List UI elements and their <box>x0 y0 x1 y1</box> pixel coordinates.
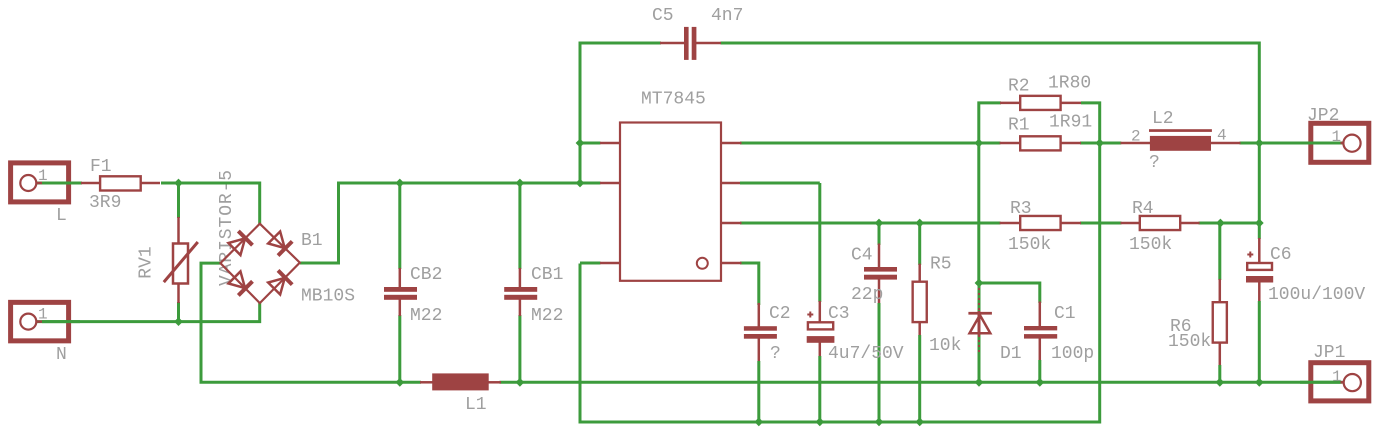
junction C1 bottom <box>1035 378 1044 387</box>
capacitor CB1 <box>504 265 563 326</box>
wire rectified bus y183 <box>300 183 601 263</box>
svg-text:D1: D1 <box>1000 344 1022 364</box>
capacitor C1 <box>1024 304 1094 364</box>
junction CB2 top <box>395 179 404 188</box>
svg-text:F1: F1 <box>90 157 112 177</box>
wire IC pin2 right to C3 <box>740 182 820 185</box>
svg-text:2: 2 <box>1131 128 1141 146</box>
svg-text:100u/100V: 100u/100V <box>1268 285 1365 305</box>
wire L input bus y183 <box>37 183 260 224</box>
junction C2 gnd <box>754 418 763 427</box>
resistor R4 <box>1121 199 1200 255</box>
capacitor C2 <box>744 304 791 364</box>
svg-text:1R80: 1R80 <box>1048 74 1091 94</box>
svg-text:MT7845: MT7845 <box>641 90 706 110</box>
junction RV1-N node <box>174 317 183 326</box>
junction IC pin1 node <box>576 139 585 148</box>
svg-text:C3: C3 <box>828 304 850 324</box>
svg-text:CB2: CB2 <box>410 265 442 285</box>
junction R4-C6 node <box>1255 219 1264 228</box>
svg-text:R1: R1 <box>1008 116 1030 136</box>
wire IC pin rows left stubs <box>580 143 601 263</box>
resistor R3 <box>1000 199 1081 255</box>
wire C1 vertical <box>1039 302 1042 383</box>
fuse F1 <box>81 157 160 213</box>
svg-text:MB10S: MB10S <box>301 287 355 307</box>
svg-text:?: ? <box>770 344 781 364</box>
resistor R5 <box>913 255 962 357</box>
junction IC pin2 node <box>576 179 585 188</box>
svg-text:C6: C6 <box>1270 245 1292 265</box>
svg-text:4n7: 4n7 <box>711 6 743 26</box>
inductor L1 <box>420 373 501 415</box>
svg-text:150k: 150k <box>1168 332 1211 352</box>
svg-text:22p: 22p <box>851 285 883 305</box>
wire D1 vertical <box>978 283 981 382</box>
varistor RV1 <box>137 242 198 284</box>
junction C4 gnd <box>875 418 884 427</box>
wire top bus C5 net <box>580 43 1259 185</box>
resistor R6 <box>1168 302 1227 352</box>
wire IC pin4 right to C2 <box>740 263 759 305</box>
svg-text:150k: 150k <box>1129 235 1172 255</box>
junction R1-L2 node <box>1095 139 1104 148</box>
wire RV1 leads <box>177 183 180 322</box>
capacitor CB2 <box>384 265 442 326</box>
junction C6 bottom <box>1255 378 1264 387</box>
junction CB1 bottom <box>516 378 525 387</box>
junction R2-R1 left <box>974 139 983 148</box>
svg-text:C1: C1 <box>1054 304 1076 324</box>
junction D1 top <box>975 279 984 288</box>
svg-text:C4: C4 <box>851 246 873 266</box>
svg-text:JP2: JP2 <box>1307 106 1339 126</box>
wire overlays over connector borders <box>42 143 1341 382</box>
capacitor C3 <box>807 304 904 364</box>
junction R6 bottom <box>1215 378 1224 387</box>
diode D1 <box>968 311 1021 364</box>
wire C6 vertical <box>1258 143 1261 382</box>
wire R6 vertical <box>1218 223 1221 382</box>
junction D1 bottom <box>975 378 984 387</box>
svg-text:3R9: 3R9 <box>89 193 121 213</box>
wire IC ground bus y422 <box>580 103 1100 422</box>
wire C2 vertical <box>758 303 761 422</box>
IC U1 MT7845 <box>600 90 742 281</box>
svg-text:10k: 10k <box>929 336 961 356</box>
svg-text:4u7/50V: 4u7/50V <box>828 344 904 364</box>
inductor L2 <box>1121 109 1241 173</box>
junction F1-RV1 node <box>174 179 183 188</box>
svg-text:L2: L2 <box>1152 109 1174 129</box>
svg-text:R4: R4 <box>1132 199 1154 219</box>
svg-text:R3: R3 <box>1010 199 1032 219</box>
junction C4 top <box>875 219 884 228</box>
connector L <box>11 163 69 226</box>
wire R5 vertical <box>918 223 921 422</box>
connector JP1 <box>1311 343 1369 401</box>
wire output row y143 <box>740 142 1343 145</box>
connector JP2 <box>1307 106 1369 162</box>
wire feedback bus y223 <box>740 222 1259 225</box>
wire R2 left elbow <box>979 103 1001 283</box>
wire C4 vertical <box>878 223 881 422</box>
junction R5 top <box>915 219 924 228</box>
svg-text:150k: 150k <box>1008 235 1051 255</box>
svg-text:1R91: 1R91 <box>1049 113 1092 133</box>
capacitor C6 <box>1246 245 1365 305</box>
junction R5 gnd <box>915 418 924 427</box>
svg-text:4: 4 <box>1217 127 1227 145</box>
junction C3 gnd <box>815 418 824 427</box>
wire CB1 vertical <box>518 183 521 382</box>
svg-text:N: N <box>56 345 67 365</box>
junction CB2 bottom <box>395 378 404 387</box>
svg-text:L1: L1 <box>465 395 487 415</box>
svg-text:M22: M22 <box>531 306 563 326</box>
wire C3 vertical <box>818 183 821 422</box>
svg-text:100p: 100p <box>1051 344 1094 364</box>
svg-text:C5: C5 <box>652 6 674 26</box>
resistor R2 <box>1000 74 1091 110</box>
wire ground bus y382 <box>201 263 1343 382</box>
svg-text:?: ? <box>1149 153 1160 173</box>
resistor R1 <box>1000 113 1093 151</box>
svg-text:B1: B1 <box>301 231 323 251</box>
svg-text:L: L <box>56 206 67 226</box>
bridge rectifier B1 MB10S <box>220 224 355 307</box>
capacitor C5 <box>652 6 743 60</box>
junction CB1 top <box>516 179 525 188</box>
svg-text:C2: C2 <box>769 304 791 324</box>
junction R4-R6 node <box>1216 219 1225 228</box>
svg-text:CB1: CB1 <box>531 265 563 285</box>
svg-text:JP1: JP1 <box>1313 343 1345 363</box>
wire CB2 vertical <box>398 183 401 382</box>
svg-text:RV1: RV1 <box>137 246 157 278</box>
capacitor C4 <box>851 246 897 306</box>
wire N input bus y321.6 <box>37 302 260 322</box>
wire D1-C1 row y283 <box>979 283 1040 303</box>
svg-text:M22: M22 <box>410 306 442 326</box>
connector N <box>11 302 69 365</box>
junction L2-JP2 node <box>1255 139 1264 148</box>
svg-text:R2: R2 <box>1008 77 1030 97</box>
svg-text:R5: R5 <box>930 255 952 275</box>
